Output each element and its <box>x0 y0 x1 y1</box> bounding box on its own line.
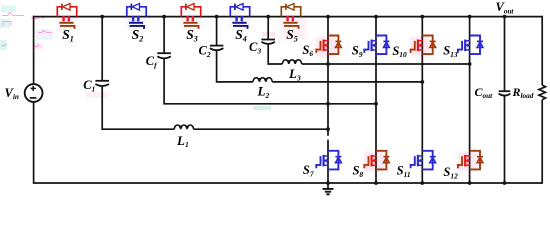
capacitor C3 <box>261 39 275 41</box>
node leg top S6 <box>326 15 330 19</box>
wire bottom rail <box>34 182 543 184</box>
wire C3 branch <box>267 17 269 40</box>
capacitor Cout <box>499 90 511 92</box>
wire C1 to L1 rail <box>102 86 174 130</box>
inductor L3 <box>282 60 301 64</box>
node L3 rail at S9/S8 leg <box>375 63 378 66</box>
wire leg column S6/S7 <box>327 17 329 136</box>
transistor S5 <box>281 7 286 17</box>
node L2 rail at S8 column <box>375 81 378 84</box>
wire Cf to rail <box>164 58 376 104</box>
inductor L1 <box>174 125 193 129</box>
node leg top S9 <box>374 15 378 19</box>
capacitor C2 <box>210 45 224 47</box>
transistor S7 <box>328 151 338 170</box>
wire Vin top <box>33 16 35 84</box>
node L3 rail at S10/S11 leg <box>421 63 424 66</box>
node L1 rail end <box>326 127 330 131</box>
wire top rail <box>33 16 542 18</box>
transistor S4 <box>230 7 235 17</box>
transistor S10 <box>422 36 432 55</box>
wire Cout branch top <box>504 17 506 92</box>
wire right edge load branch top <box>541 16 543 85</box>
capacitor Cf <box>157 52 171 54</box>
node C3 top <box>266 15 270 19</box>
node Cf rail end <box>374 102 378 106</box>
wire Vin bottom <box>33 102 35 184</box>
wire L3 rail <box>302 63 470 65</box>
node Cout bottom <box>503 181 507 185</box>
wire C2 branch <box>216 17 218 46</box>
wire C1 branch <box>101 17 103 81</box>
ground <box>327 183 329 189</box>
wire C2 to L2 rail <box>217 50 253 82</box>
transistor S9 <box>376 36 386 55</box>
node leg top S13 <box>468 15 472 19</box>
node Vout <box>503 15 507 19</box>
node leg bottom S11 <box>420 181 424 185</box>
wire Cout branch bottom <box>504 95 506 183</box>
transistor S6 <box>328 36 338 55</box>
wire L2 rail <box>272 81 422 83</box>
wire leg column S13/S12 <box>469 17 471 183</box>
transistor S8 <box>376 151 386 170</box>
node L3 rail end at S13/S12 leg <box>468 62 472 66</box>
wire Cf branch <box>163 17 165 54</box>
node Cf top <box>162 15 166 19</box>
node leg bottom S8 <box>374 181 378 185</box>
transistor S12 <box>470 151 480 170</box>
transistor S11 <box>422 151 432 170</box>
node leg top S10 <box>420 15 424 19</box>
wire L1 rail <box>194 128 329 130</box>
wire leg column S10/S11 <box>421 17 423 183</box>
node C1 top <box>100 15 104 19</box>
node Cf rail at S7 column <box>326 102 330 106</box>
wire right edge load branch bottom <box>541 100 543 184</box>
transistor S1 <box>57 7 62 17</box>
node C2 top <box>215 15 219 19</box>
wire leg column S9/S8 <box>375 17 377 183</box>
source Vin <box>25 84 43 102</box>
wire C3 to L3 rail <box>268 44 282 65</box>
inductor L2 <box>253 78 272 82</box>
node leg bottom S7 <box>326 181 330 185</box>
transistor S3 <box>181 7 186 17</box>
node L3 rail at S6/S7 leg <box>326 62 330 66</box>
resistor Rload <box>539 85 546 100</box>
capacitor C1 <box>95 80 109 82</box>
node leg bottom S12 <box>468 181 472 185</box>
node L2 rail end <box>420 80 424 84</box>
transistor S2 <box>127 7 132 17</box>
transistor S13 <box>470 36 480 55</box>
